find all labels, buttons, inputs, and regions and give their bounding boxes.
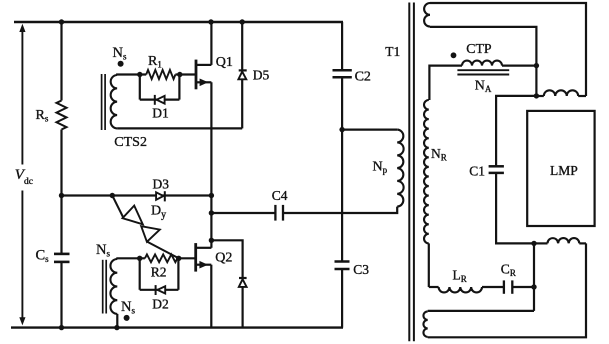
node R1 right xyxy=(177,72,182,77)
winding bottom filament xyxy=(548,238,580,243)
winding Ns upper (CTS2) xyxy=(111,75,117,128)
wire bottom filament left lead xyxy=(534,242,548,244)
wire Ns top to R1 xyxy=(116,73,146,75)
node Ns lower / bottom rail xyxy=(114,325,119,330)
wire to bottom winding xyxy=(428,310,534,312)
wire C4 to Np bottom xyxy=(283,207,397,213)
wire left column upper xyxy=(60,22,62,101)
node R2 right xyxy=(176,256,181,261)
wire midpoint to Np top xyxy=(342,129,397,131)
transformer CTS core (lower) xyxy=(103,260,107,314)
wire secondary top xyxy=(430,3,586,96)
resistor Rs xyxy=(57,101,67,130)
svg-text:D5: D5 xyxy=(253,68,270,83)
svg-text:R2: R2 xyxy=(151,265,167,280)
node filament/C1 top xyxy=(534,93,539,98)
wire C3 column bottom xyxy=(341,269,343,328)
node R2 left xyxy=(137,256,142,261)
wire C1 top lead xyxy=(496,96,536,166)
capacitor CR xyxy=(504,280,512,293)
svg-text:D3: D3 xyxy=(153,177,170,192)
wire filament leads top xyxy=(536,95,586,97)
wire CR to node xyxy=(512,286,534,288)
transistor Q2 xyxy=(196,243,212,272)
Vdc source arrow xyxy=(19,24,25,326)
wire NR bottom down xyxy=(428,243,430,287)
wire bottom filament right lead xyxy=(579,242,586,244)
node D5 / top rail xyxy=(240,19,245,24)
wire C2 to C3 xyxy=(341,77,343,261)
wire R2 to Q2 base xyxy=(177,257,195,259)
capacitor Cs xyxy=(54,254,70,262)
wire LR to CR xyxy=(482,286,504,288)
svg-text:C3: C3 xyxy=(353,262,369,277)
winding top filament xyxy=(544,90,578,96)
diode D3 xyxy=(156,191,165,201)
node R1 left xyxy=(137,72,142,77)
transistor Q1 xyxy=(196,60,211,90)
wire CTP left lead down to NR xyxy=(429,66,462,100)
node switch column / mid wire xyxy=(209,193,214,198)
transformer CTS2 core (upper) xyxy=(102,74,106,130)
svg-text:Q2: Q2 xyxy=(215,251,232,266)
svg-text:C2: C2 xyxy=(355,70,371,85)
winding CTP xyxy=(462,61,502,66)
polarity dot Ns upper xyxy=(118,61,124,67)
transformer T1 core xyxy=(409,3,414,342)
wire CTP right lead xyxy=(502,64,536,66)
node resonant top xyxy=(531,241,536,246)
resistor R2 xyxy=(145,254,178,262)
svg-text:C1: C1 xyxy=(469,164,485,179)
wire resonant node column xyxy=(533,243,535,311)
capacitor C1 xyxy=(489,166,504,173)
wire Ns lower bottom to rail xyxy=(116,314,118,328)
svg-text:CTS2: CTS2 xyxy=(114,135,147,150)
node switch column / C4 xyxy=(209,210,214,215)
wire left column lower xyxy=(60,262,62,328)
node switch column / Q2 collector xyxy=(209,238,214,243)
wire CTS2 bottom rail xyxy=(117,127,242,129)
diode Dy (bowtie trigger) xyxy=(112,196,178,259)
winding Ns lower xyxy=(110,259,117,314)
wire top supply rail xyxy=(14,21,343,23)
wire NR top section to CTP column xyxy=(430,27,536,96)
node Q1 collector / top rail xyxy=(208,19,213,24)
wire switch node to C4 xyxy=(211,212,275,214)
wire Q2 collector up xyxy=(210,240,212,248)
wire bottom supply rail xyxy=(11,326,343,328)
wire R1 to Q1 base xyxy=(175,73,196,75)
diode D2 xyxy=(156,285,166,295)
capacitor C4 xyxy=(275,205,283,221)
polarity dot CTP xyxy=(451,52,457,58)
node top rail / Rs xyxy=(59,19,64,24)
diode D1 loop wires xyxy=(140,75,180,100)
wire secondary bottom xyxy=(428,243,586,337)
diode across Q2 xyxy=(211,240,246,327)
wire C2 column top xyxy=(341,22,343,70)
lamp LMP xyxy=(527,111,594,226)
diode D2 loop wires xyxy=(140,258,179,290)
node resonant bottom xyxy=(531,284,536,289)
wire Q1 collector up xyxy=(210,22,212,65)
svg-text:CTP: CTP xyxy=(466,41,492,56)
svg-text:D2: D2 xyxy=(152,297,169,312)
node CTP right xyxy=(534,63,539,68)
wire NR to LR xyxy=(429,286,439,288)
wire C1 bottom lead xyxy=(496,173,534,244)
capacitor C2 xyxy=(333,70,352,77)
polarity dot Ns lower xyxy=(124,315,130,321)
wire Q2 emitter down xyxy=(210,265,212,328)
capacitor C3 xyxy=(335,262,350,270)
svg-text:Q1: Q1 xyxy=(216,55,233,70)
node Dy branch xyxy=(110,193,115,198)
svg-text:T1: T1 xyxy=(385,44,400,59)
winding secondary bottom section xyxy=(423,311,427,337)
node midpoint junction xyxy=(59,193,64,198)
inductor LR xyxy=(439,287,482,292)
winding NR main xyxy=(424,100,429,243)
diode D1 xyxy=(155,95,165,105)
wire left column middle xyxy=(60,130,62,254)
winding Np xyxy=(397,130,403,207)
resistor R1 xyxy=(146,70,175,79)
svg-text:C4: C4 xyxy=(272,188,288,203)
wire Q1 emitter down (switch node column) xyxy=(210,82,212,240)
wire Ns to R2 xyxy=(116,257,145,259)
node C2-C3 midpoint xyxy=(339,127,344,132)
winding NR top section xyxy=(424,3,430,27)
svg-text:LMP: LMP xyxy=(550,163,578,178)
wire middle horizontal (Rs-Cs midpoint to switch node) xyxy=(62,194,212,196)
node bottom rail / Cs xyxy=(59,325,64,330)
svg-text:D1: D1 xyxy=(152,106,169,121)
diode D5 xyxy=(238,22,246,128)
transformer CTP core xyxy=(457,70,509,74)
